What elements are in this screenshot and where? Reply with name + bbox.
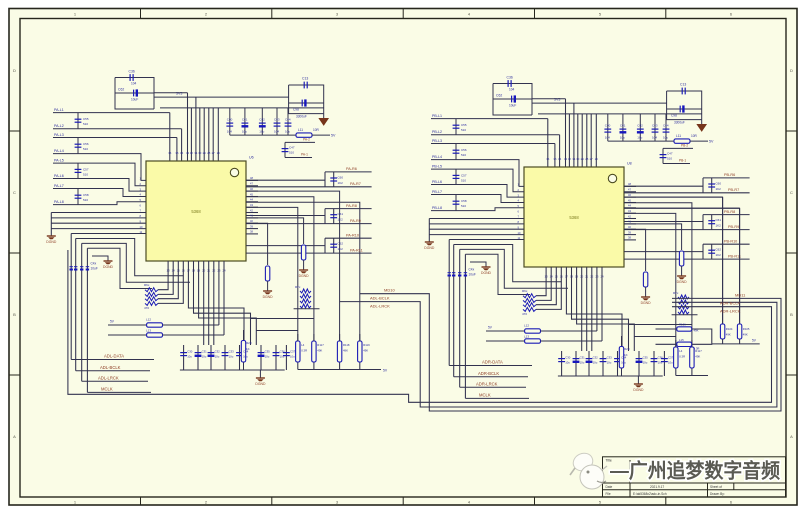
svg-text:49K: 49K [726, 333, 731, 337]
wire input PB-L7 [431, 195, 524, 203]
svg-text:PB-R8: PB-R8 [724, 210, 735, 214]
wire output group 2 (PA-R8) [246, 215, 325, 217]
svg-text:PA-R6: PA-R6 [346, 167, 357, 171]
svg-text:C40: C40 [605, 124, 611, 128]
svg-text:10u: 10u [229, 355, 234, 359]
svg-text:L12: L12 [146, 318, 151, 322]
svg-text:B: B [790, 312, 793, 317]
svg-text:C60: C60 [716, 181, 722, 185]
svg-text:C56: C56 [461, 148, 467, 152]
svg-text:R105: R105 [743, 327, 750, 331]
capacitor C60 output [708, 184, 715, 187]
svg-text:A: A [790, 434, 793, 439]
svg-text:510: 510 [289, 151, 294, 155]
svg-text:C62: C62 [118, 88, 124, 92]
svg-text:U6: U6 [249, 156, 254, 160]
svg-text:C35: C35 [265, 350, 271, 354]
capacitor C36 loop (U8) [493, 84, 532, 116]
wire elbow bus [449, 239, 524, 241]
capacitor C98 (U6) [302, 99, 306, 106]
svg-text:1K2: 1K2 [716, 224, 722, 228]
ground DGND bottom [256, 378, 265, 381]
capacitor C44 (U6) [287, 108, 289, 135]
pin numbers top [168, 151, 220, 155]
resistor R106 (U8) [656, 328, 677, 330]
svg-text:PA-R8: PA-R8 [346, 204, 357, 208]
svg-text:PB-L8: PB-L8 [432, 206, 442, 210]
wire bank feeders [246, 191, 340, 341]
bottom capacitor row [561, 351, 563, 376]
svg-text:C61: C61 [716, 218, 722, 222]
svg-text:3300uF: 3300uF [674, 121, 685, 125]
svg-text:PA-L4: PA-L4 [54, 149, 64, 153]
svg-text:26: 26 [595, 157, 599, 161]
resistor R30 with ground (U6) [246, 218, 304, 244]
svg-text:ADL-DATA: ADL-DATA [104, 354, 124, 359]
svg-text:35: 35 [175, 151, 179, 155]
wire elbow bus [71, 233, 146, 235]
svg-text:R106: R106 [679, 323, 686, 327]
svg-text:32: 32 [190, 151, 194, 155]
wire input PA-L2 [53, 128, 182, 130]
ground DGND near caps [470, 262, 486, 267]
svg-text:C36: C36 [280, 350, 286, 354]
svg-text:49K: 49K [363, 349, 368, 353]
svg-text:MCLK: MCLK [101, 387, 113, 392]
svg-text:10u: 10u [242, 130, 247, 134]
svg-text:5V: 5V [383, 368, 388, 372]
svg-text:1K2: 1K2 [716, 187, 722, 191]
wire input PA-L1 [53, 112, 170, 114]
svg-text:36: 36 [168, 151, 172, 155]
bottom capacitor row [183, 345, 185, 370]
wire VDD rail [538, 113, 702, 115]
svg-text:PB-R11: PB-R11 [728, 254, 741, 258]
svg-text:1K2: 1K2 [716, 253, 722, 257]
wire P3 MCLK long [68, 250, 772, 402]
svg-text:1K2: 1K2 [338, 218, 344, 222]
svg-text:5V: 5V [331, 134, 336, 138]
svg-text:10uF: 10uF [469, 273, 476, 277]
svg-text:PA-R11: PA-R11 [350, 248, 363, 252]
capacitor C50 input (U6) [77, 113, 79, 129]
capacitor C43 (U8) [654, 114, 656, 141]
resistor network RN2 (U8) [678, 295, 689, 299]
svg-text:1K2: 1K2 [338, 247, 344, 251]
svg-text:3V3: 3V3 [554, 98, 560, 102]
pin numbers left [140, 177, 143, 235]
svg-text:ADL-BCLK: ADL-BCLK [370, 296, 390, 301]
svg-text:5V: 5V [709, 140, 714, 144]
svg-text:3300uF: 3300uF [296, 115, 307, 119]
svg-text:C62: C62 [496, 94, 502, 98]
svg-text:B: B [13, 312, 16, 317]
capacitor C52 input (U8) [455, 169, 457, 184]
svg-text:C33: C33 [229, 350, 235, 354]
capacitor C62 output [330, 244, 337, 247]
svg-text:10u: 10u [565, 361, 570, 365]
svg-text:510: 510 [461, 128, 466, 132]
svg-text:PB-R9: PB-R9 [728, 225, 739, 229]
svg-text:PB-L4: PB-L4 [432, 155, 442, 159]
ground DGND near caps [92, 256, 108, 261]
svg-text:R7x: R7x [295, 285, 301, 289]
wire 5V rail bottom [676, 375, 708, 377]
svg-text:10u: 10u [637, 136, 642, 140]
capacitor C43 (U6) [276, 108, 278, 135]
svg-text:C58: C58 [461, 199, 467, 203]
capacitors C44-C47 bus [448, 273, 451, 277]
resistor R30 with ground (U8) [624, 224, 682, 250]
svg-text:104: 104 [131, 82, 137, 86]
svg-text:510: 510 [461, 153, 466, 157]
svg-text:PA-L6: PA-L6 [54, 174, 64, 178]
svg-text:10u: 10u [620, 136, 625, 140]
power ground arrow [701, 120, 703, 125]
pin numbers top [546, 157, 598, 161]
wire caps ground rail [558, 375, 663, 377]
wire bundle to chip top pins [547, 119, 549, 167]
svg-text:R119: R119 [363, 343, 370, 347]
resistor R20 (U8) [621, 336, 623, 376]
IC U8 AK5368 [524, 167, 624, 267]
svg-text:C32: C32 [593, 356, 599, 360]
svg-text:ADL-LRCK: ADL-LRCK [370, 303, 390, 308]
svg-text:PB-L3: PB-L3 [432, 139, 442, 143]
resistor bank R116-R119 [297, 334, 299, 370]
svg-text:ADL-LRCK: ADL-LRCK [98, 375, 119, 380]
inductor L12 (U6) [108, 324, 147, 326]
wire lower-left group [429, 218, 524, 220]
capacitor C42 (U8) [639, 114, 641, 141]
svg-text:C60: C60 [338, 175, 344, 179]
svg-text:10u: 10u [265, 355, 270, 359]
inductor L13 (U6) [108, 334, 147, 336]
pin numbers left [518, 183, 521, 241]
svg-text:470: 470 [522, 312, 527, 316]
svg-text:32: 32 [568, 157, 572, 161]
wire input PB-L8 [431, 208, 524, 211]
svg-text:C55: C55 [83, 117, 89, 121]
svg-text:DGND: DGND [641, 301, 652, 305]
wire net MCLK [465, 397, 529, 399]
capacitor C40 (U8) [607, 114, 609, 141]
svg-text:DGND: DGND [424, 246, 435, 250]
svg-text:R20: R20 [246, 341, 252, 345]
svg-text:L11: L11 [298, 128, 303, 132]
svg-text:C41: C41 [242, 118, 248, 122]
svg-text:DGND: DGND [255, 382, 266, 386]
svg-text:34: 34 [180, 151, 184, 155]
svg-text:10u: 10u [663, 136, 668, 140]
svg-text:510: 510 [83, 122, 88, 126]
wire 5V rail bottom [298, 369, 381, 371]
svg-text:PB-1: PB-1 [679, 159, 686, 163]
svg-text:C30: C30 [565, 356, 571, 360]
capacitor C51 input (U8) [455, 144, 457, 160]
wire feeder [532, 98, 566, 100]
resistor R104 (U8) [722, 197, 724, 324]
svg-text:27: 27 [590, 157, 594, 161]
svg-text:PB-L7: PB-L7 [432, 190, 442, 194]
svg-text:PA-2: PA-2 [303, 137, 310, 141]
svg-text:File: File [606, 492, 611, 496]
svg-text:C40: C40 [227, 118, 233, 122]
svg-text:Drawn By:: Drawn By: [710, 492, 725, 496]
svg-text:0.3R: 0.3R [679, 355, 685, 359]
capacitor C13 (U8) [667, 91, 702, 120]
svg-text:10u: 10u [621, 361, 626, 365]
svg-text:1K2: 1K2 [338, 181, 344, 185]
svg-text:10u: 10u [259, 130, 264, 134]
svg-text:E:\ak5368x2\adc-in.Sch: E:\ak5368x2\adc-in.Sch [633, 492, 667, 496]
svg-text:DGND: DGND [263, 295, 274, 299]
svg-text:L12: L12 [524, 324, 529, 328]
svg-text:PA-R10: PA-R10 [346, 233, 359, 237]
svg-text:104: 104 [274, 130, 279, 134]
svg-text:10u: 10u [643, 361, 648, 365]
wire input PA-L8 [53, 202, 146, 205]
svg-text:ADL-BCLK: ADL-BCLK [100, 365, 121, 370]
wire 5V rail right block [712, 343, 760, 345]
svg-text:U8: U8 [627, 162, 632, 166]
svg-text:DGND: DGND [103, 265, 114, 269]
svg-text:ADR-LRCK: ADR-LRCK [476, 381, 498, 386]
svg-text:PA-R7: PA-R7 [350, 182, 361, 186]
svg-text:10u: 10u [593, 361, 598, 365]
IC U6 AK5368 [146, 161, 246, 261]
inductor L12 (U8) [486, 330, 525, 332]
svg-text:C41: C41 [620, 124, 626, 128]
svg-text:PB-L2: PB-L2 [432, 130, 442, 134]
svg-text:5368: 5368 [191, 209, 201, 214]
svg-text:ADR-DATA: ADR-DATA [482, 360, 503, 365]
wire output group 1 (PB-R6) [624, 185, 703, 187]
wire net ADL-DATA [71, 359, 154, 361]
svg-text:C4x: C4x [469, 268, 475, 272]
capacitor C62 (U8) [512, 95, 516, 102]
svg-text:C31: C31 [202, 350, 208, 354]
svg-text:3V3: 3V3 [176, 92, 182, 96]
svg-text:10u: 10u [668, 361, 673, 365]
wire net ADL-LRCK [82, 380, 148, 382]
svg-text:10R: 10R [313, 128, 320, 132]
svg-text:ADR-BCLK: ADR-BCLK [478, 371, 499, 376]
svg-text:C31: C31 [580, 356, 586, 360]
wire net ADR-BCLK [454, 376, 528, 378]
svg-text:C44: C44 [663, 124, 669, 128]
svg-text:C34: C34 [621, 356, 627, 360]
inductor L15 (U8) [656, 343, 677, 345]
svg-text:104: 104 [227, 130, 232, 134]
svg-text:C32: C32 [215, 350, 221, 354]
wire input PB-L2 [431, 134, 560, 136]
svg-text:C42: C42 [259, 118, 265, 122]
svg-text:C62: C62 [716, 248, 722, 252]
svg-text:C13: C13 [302, 77, 308, 81]
wire 3V3 rail [532, 102, 667, 104]
svg-text:0.3R: 0.3R [301, 349, 307, 353]
capacitor C61 output [708, 221, 715, 224]
svg-text:30: 30 [198, 151, 202, 155]
ground DGND lower-left [47, 236, 56, 239]
inductor L13 (U8) [486, 340, 525, 342]
wire input PA-L7 [53, 189, 146, 197]
svg-text:DGND: DGND [633, 388, 644, 392]
svg-text:28: 28 [585, 157, 589, 161]
svg-text:PB-R7: PB-R7 [728, 188, 739, 192]
svg-text:PA-L2: PA-L2 [54, 124, 64, 128]
svg-text:27: 27 [212, 151, 216, 155]
wire input PA-L4 [53, 154, 146, 181]
wire input PB-L6 [431, 185, 524, 198]
svg-text:2021.9.17: 2021.9.17 [650, 485, 664, 489]
title block text [606, 459, 725, 497]
capacitor C47 (U6) [285, 141, 315, 143]
resistor R20 (U6) [243, 330, 245, 370]
svg-text:10u: 10u [202, 355, 207, 359]
svg-text:PA-L3: PA-L3 [54, 133, 64, 137]
svg-text:R117: R117 [317, 343, 324, 347]
svg-text:R6x: R6x [144, 283, 150, 287]
wire net ADR-LRCK [460, 386, 526, 388]
svg-text:C47: C47 [289, 146, 295, 150]
wire caps ground rail [180, 369, 285, 371]
svg-text:510: 510 [83, 198, 88, 202]
svg-text:R7x: R7x [673, 291, 679, 295]
wire ground rail of caps row [230, 134, 296, 136]
svg-text:A: A [13, 434, 16, 439]
svg-text:DGND: DGND [46, 240, 57, 244]
resistor R31 with ground (U6) [246, 223, 268, 265]
svg-text:Date: Date [606, 485, 613, 489]
pin numbers bottom [545, 275, 604, 279]
watermark logo [570, 450, 607, 489]
svg-text:DGND: DGND [677, 280, 688, 284]
wire lower-left group [51, 212, 146, 214]
svg-text:PA-L5: PA-L5 [54, 159, 64, 163]
right pin stubs [246, 176, 258, 234]
capacitor C53 input (U6) [77, 189, 79, 205]
capacitors C44-C47 bus [70, 267, 73, 271]
pin numbers bottom [167, 269, 226, 273]
svg-text:29: 29 [581, 157, 585, 161]
capacitor C44 (U8) [665, 114, 667, 141]
capacitor C36 loop (U6) [115, 78, 154, 110]
svg-text:Sheet of: Sheet of [710, 485, 722, 489]
svg-text:49K: 49K [694, 329, 699, 333]
resistor R31 with ground (U8) [624, 229, 646, 271]
svg-text:L11: L11 [676, 134, 681, 138]
svg-text:R20: R20 [624, 347, 630, 351]
svg-text:470: 470 [144, 306, 149, 310]
svg-text:PB-L6: PB-L6 [432, 180, 442, 184]
capacitor C52 input (U6) [77, 163, 79, 178]
capacitor C53 input (U8) [455, 195, 457, 211]
svg-text:D: D [790, 68, 793, 73]
capacitor C61 output [330, 215, 337, 218]
resistor bank R116-R119 [675, 340, 677, 376]
resistor network RN2 (U6) [300, 289, 311, 293]
capacitor C98 (U8) [680, 105, 684, 112]
svg-text:ADR-LRCK: ADR-LRCK [720, 308, 741, 313]
svg-text:35: 35 [553, 157, 557, 161]
svg-text:10uF: 10uF [509, 104, 516, 108]
wire output group 3 (PA-R10) [246, 245, 325, 247]
wire input PB-L1 [431, 118, 548, 120]
svg-text:28: 28 [207, 151, 211, 155]
wire bus verticals [70, 234, 72, 360]
svg-text:C61: C61 [338, 212, 344, 216]
svg-text:10uF: 10uF [91, 267, 98, 271]
svg-text:10u: 10u [580, 361, 585, 365]
svg-text:10u: 10u [607, 361, 612, 365]
svg-text:30: 30 [576, 157, 580, 161]
svg-text:C: C [13, 190, 16, 195]
svg-text:C43: C43 [652, 124, 658, 128]
svg-text:C55: C55 [461, 123, 467, 127]
svg-text:C58: C58 [83, 193, 89, 197]
svg-text:49K: 49K [317, 349, 322, 353]
wire net MCLK [87, 391, 151, 393]
svg-text:L15: L15 [679, 338, 684, 342]
wire bank feeders [624, 197, 723, 324]
svg-text:L13: L13 [524, 335, 529, 339]
wire net ADR-DATA [449, 365, 532, 367]
svg-text:C36: C36 [658, 356, 664, 360]
svg-text:PA-L7: PA-L7 [54, 184, 64, 188]
wire bundle to chip top pins [169, 113, 171, 161]
svg-text:C34: C34 [243, 350, 249, 354]
svg-text:10u: 10u [290, 355, 295, 359]
capacitor C13 (U6) [289, 85, 324, 114]
svg-text:26: 26 [217, 151, 221, 155]
wire ground rail of caps row [608, 140, 674, 142]
wire input PB-L5 [431, 169, 524, 192]
svg-text:49K: 49K [343, 349, 348, 353]
svg-text:C33: C33 [607, 356, 613, 360]
svg-text:C56: C56 [83, 142, 89, 146]
capacitor C42 (U6) [261, 108, 263, 135]
svg-text:ADR-BCLK: ADR-BCLK [720, 300, 741, 305]
svg-text:C: C [790, 190, 793, 195]
svg-text:PA-R9: PA-R9 [350, 219, 361, 223]
svg-text:PB-2: PB-2 [681, 143, 688, 147]
wire P2 [340, 302, 777, 407]
capacitor C62 (U6) [134, 89, 138, 96]
power ground arrow [323, 114, 325, 119]
svg-text:MCLK: MCLK [479, 393, 491, 398]
svg-text:C36: C36 [129, 70, 135, 74]
svg-text:C62: C62 [338, 242, 344, 246]
svg-text:R6x: R6x [522, 289, 528, 293]
svg-text:10u: 10u [243, 355, 248, 359]
svg-text:C35: C35 [643, 356, 649, 360]
svg-text:PA-1: PA-1 [301, 153, 308, 157]
capacitor C41 (U6) [244, 108, 246, 135]
svg-text:10u: 10u [285, 130, 290, 134]
svg-text:L4: L4 [301, 343, 305, 347]
svg-text:10R: 10R [691, 134, 698, 138]
svg-text:C42: C42 [637, 124, 643, 128]
wire input PB-L4 [431, 160, 524, 187]
svg-text:510: 510 [667, 157, 672, 161]
wire input PA-L5 [53, 163, 146, 186]
svg-text:C30: C30 [187, 350, 193, 354]
right pin stubs [624, 182, 636, 240]
svg-text:PA-L1: PA-L1 [54, 108, 64, 112]
inductor L11 (U6) [296, 133, 312, 137]
